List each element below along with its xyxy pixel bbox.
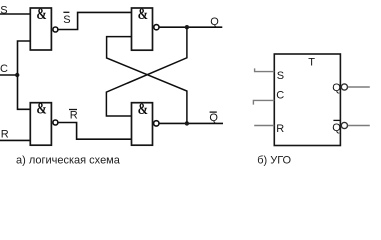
svg-text:R: R xyxy=(276,123,284,135)
svg-text:C: C xyxy=(276,89,284,101)
svg-text:б) УГО: б) УГО xyxy=(257,155,291,167)
NAND gate DD1.4 (output Q-bar) xyxy=(132,103,153,146)
UGO pin R wire xyxy=(254,125,274,127)
wire Q output xyxy=(159,26,222,28)
svg-text:&: & xyxy=(36,6,46,24)
svg-text:&: & xyxy=(138,101,148,119)
NAND gate DD1.1 (inputs S,C) xyxy=(30,8,51,50)
svg-text:Q: Q xyxy=(209,112,218,124)
UGO pin Q-bar wire xyxy=(348,125,370,127)
svg-text:C: C xyxy=(0,63,8,75)
wire Q-bar feedback to DD1.2 input xyxy=(107,37,187,124)
inversion bubble DD1.3 xyxy=(53,120,58,125)
node C junction xyxy=(15,73,19,77)
wire S-bar to DD1.2 xyxy=(58,12,131,29)
svg-text:S: S xyxy=(63,14,70,26)
svg-text:R: R xyxy=(70,110,78,122)
svg-text:Q: Q xyxy=(332,82,341,94)
inversion bubble DD1.2 xyxy=(154,25,159,30)
inversion bubble DD1.4 xyxy=(154,121,159,126)
svg-text:Q: Q xyxy=(210,16,219,28)
svg-text:Q: Q xyxy=(332,122,341,134)
wire R-bar to DD1.4 xyxy=(58,123,131,140)
svg-text:S: S xyxy=(277,70,284,82)
flip-flop UGO box xyxy=(274,54,340,146)
wire Q feedback to DD1.4 input xyxy=(106,27,186,116)
inversion bubble DD1.1 xyxy=(53,27,58,32)
UGO Q inversion bubble xyxy=(341,84,347,90)
node Q-bar junction xyxy=(185,121,189,125)
UGO pin C wire xyxy=(253,100,274,104)
wire C input xyxy=(0,74,18,76)
wire C branch to both gates xyxy=(18,41,31,109)
NAND gate DD1.2 (output Q) xyxy=(132,8,153,50)
node Q junction xyxy=(185,25,189,29)
svg-text:&: & xyxy=(138,6,148,24)
NAND gate DD1.3 (inputs C,R) xyxy=(30,103,51,146)
UGO pin Q wire xyxy=(348,86,370,88)
UGO pin S wire xyxy=(255,68,275,71)
svg-text:а) логическая схема: а) логическая схема xyxy=(16,154,121,166)
UGO Q-bar inversion bubble xyxy=(341,122,347,128)
svg-text:R: R xyxy=(1,128,9,140)
svg-text:&: & xyxy=(36,100,46,118)
svg-text:T: T xyxy=(308,57,315,69)
wire R input xyxy=(0,139,30,141)
wire S input xyxy=(0,13,30,15)
wire Q-bar output xyxy=(159,122,223,124)
